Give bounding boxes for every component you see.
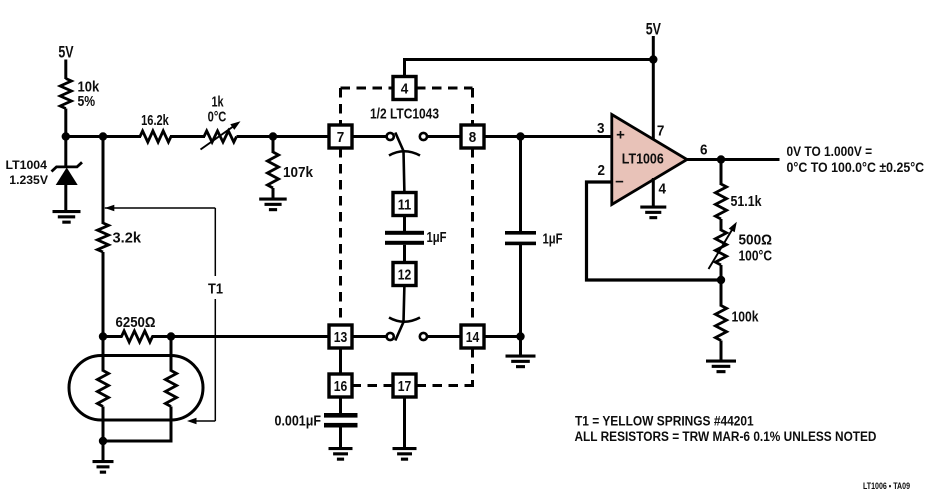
node B junction dot xyxy=(99,132,107,140)
svg-text:0V TO 1.000V =: 0V TO 1.000V = xyxy=(787,144,873,159)
LTC1043 dashed boundary top edge left xyxy=(341,87,394,90)
resistor R1 10k 5% xyxy=(60,79,71,109)
LTC1043 dashed boundary right edge mid xyxy=(471,148,474,325)
wire C2 to node H xyxy=(519,244,522,337)
pin box 16 xyxy=(329,374,352,397)
svg-text:ALL RESISTORS = TRW MAR-6 0.1%: ALL RESISTORS = TRW MAR-6 0.1% UNLESS NO… xyxy=(575,429,877,444)
svg-text:51.1k: 51.1k xyxy=(731,193,763,210)
node C junction dot xyxy=(269,132,277,140)
wire R7 to R8 xyxy=(720,219,723,231)
wire node A to node B xyxy=(66,135,105,138)
ground under thermistor xyxy=(93,460,114,474)
pin box 17 xyxy=(393,374,416,397)
wire C3 to ground xyxy=(339,428,342,449)
wire D1 anode to ground xyxy=(64,184,67,211)
wire 5V stub to R1 xyxy=(64,60,67,80)
svg-text:7: 7 xyxy=(657,123,665,140)
wire op-amp output xyxy=(686,158,780,161)
wire 5V stub right xyxy=(652,36,655,60)
switch S1 right contact xyxy=(420,133,427,140)
wire box 14 to node H xyxy=(484,335,522,338)
potentiometer R8 500ohm 100degC xyxy=(715,230,726,265)
switch S2 wiper arc xyxy=(389,318,420,322)
svg-text:1μF: 1μF xyxy=(543,231,563,248)
wire R4 to ground xyxy=(272,188,275,199)
wire node D to R6 xyxy=(103,335,123,338)
svg-text:16: 16 xyxy=(334,378,348,395)
wire box 16 to C3 xyxy=(339,397,342,414)
wire T1 left element to node F xyxy=(102,407,105,443)
wire switch contact to box 8 xyxy=(427,135,461,138)
wire R8 to node K xyxy=(720,265,723,307)
wire T1 right element down xyxy=(170,407,173,442)
svg-text:12: 12 xyxy=(398,267,412,284)
pin box 7 xyxy=(329,125,352,148)
svg-text:LT1006: LT1006 xyxy=(622,151,664,168)
wire node C to R4 xyxy=(272,137,275,154)
svg-text:1.235V: 1.235V xyxy=(9,173,48,187)
wire R1 to node A xyxy=(64,109,67,168)
T1 callout arrow to 3.2k wire xyxy=(105,205,115,211)
T1 callout vertical upper xyxy=(214,208,216,276)
ground under R4 xyxy=(259,198,287,212)
LTC1043 dashed boundary right edge upper xyxy=(471,88,474,125)
wire node I to C2 xyxy=(519,137,522,233)
svg-text:+: + xyxy=(616,127,625,144)
pin box 14 xyxy=(461,325,484,348)
svg-text:0.001μF: 0.001μF xyxy=(275,413,322,430)
wire R2 to R3 xyxy=(170,135,205,138)
svg-text:500Ω: 500Ω xyxy=(739,232,773,249)
wire node D into oval xyxy=(102,337,105,372)
wire node E to pin box 13 xyxy=(171,335,330,338)
resistor R5 3.2k xyxy=(97,223,108,252)
svg-text:100k: 100k xyxy=(732,309,760,326)
wire feedback net xyxy=(587,182,723,280)
svg-text:0°C: 0°C xyxy=(208,109,227,126)
potentiometer R3 1k 0degC xyxy=(204,131,237,142)
LTC1043 dashed boundary right edge lower xyxy=(471,348,474,387)
wire node J to R7 xyxy=(720,160,723,186)
ground under R9 xyxy=(706,360,736,374)
svg-text:T1: T1 xyxy=(208,281,223,298)
node J junction dot xyxy=(717,155,725,163)
wire R5 to node D xyxy=(102,252,105,338)
svg-text:11: 11 xyxy=(398,197,412,214)
switch S2 left contact xyxy=(387,333,394,340)
svg-text:LT1006 • TA09: LT1006 • TA09 xyxy=(863,481,910,491)
wire node E into oval xyxy=(170,337,173,372)
svg-text:2: 2 xyxy=(598,162,606,179)
wire pin 4 box to top rail xyxy=(403,60,406,77)
node A junction dot xyxy=(62,132,70,140)
svg-text:3.2k: 3.2k xyxy=(113,230,142,247)
svg-text:5V: 5V xyxy=(58,44,73,62)
wire bottom link xyxy=(102,440,173,443)
wire top rail xyxy=(403,58,653,61)
wire node B to R5 xyxy=(102,137,105,225)
resistor R6 6250ohm xyxy=(122,331,153,342)
svg-text:7: 7 xyxy=(337,129,345,146)
switch S1 arm xyxy=(395,133,404,193)
svg-text:8: 8 xyxy=(469,129,477,146)
svg-text:4: 4 xyxy=(659,181,667,198)
op-amp U1 LT1006 xyxy=(612,115,687,205)
svg-text:5V: 5V xyxy=(646,21,661,39)
ground under D1 xyxy=(53,210,81,224)
T1 callout arrow to oval xyxy=(190,420,215,422)
ground under op-amp xyxy=(640,206,666,220)
wire node B to R2 xyxy=(103,135,141,138)
node F junction dot xyxy=(99,437,107,445)
resistor R2 16.2k xyxy=(140,131,171,142)
capacitor C3 0.001uF xyxy=(324,413,358,418)
capacitor C2 1uF xyxy=(505,231,536,235)
capacitor C1 1uF xyxy=(385,231,424,235)
svg-text:T1 = YELLOW SPRINGS #44201: T1 = YELLOW SPRINGS #44201 xyxy=(575,414,754,429)
svg-text:107k: 107k xyxy=(283,164,314,181)
pin box 11 xyxy=(393,193,416,216)
zener diode D1 LT1004-1.235V xyxy=(52,162,83,171)
ground under box 17 xyxy=(393,447,417,461)
pin box 12 xyxy=(393,263,416,286)
wire box 17 to ground xyxy=(403,397,406,448)
thermistor T1 enclosure oval xyxy=(69,356,203,421)
wire node F to ground xyxy=(102,441,105,461)
svg-text:3: 3 xyxy=(597,120,605,137)
svg-text:17: 17 xyxy=(398,378,412,395)
svg-text:LT1004: LT1004 xyxy=(6,158,48,172)
node D junction dot xyxy=(99,332,107,340)
svg-text:14: 14 xyxy=(466,329,480,346)
wire R9 to ground xyxy=(720,341,723,361)
switch S1 wiper arc xyxy=(389,151,420,155)
svg-text:1/2 LTC1043: 1/2 LTC1043 xyxy=(370,106,439,123)
svg-text:1μF: 1μF xyxy=(427,229,447,246)
wire R3 to node C xyxy=(237,135,275,138)
LTC1043 dashed boundary left edge upper xyxy=(339,88,342,125)
LTC1043 dashed boundary left edge lower xyxy=(339,148,342,325)
node E junction dot xyxy=(167,332,175,340)
svg-text:0°C TO 100.0°C ±0.25°C: 0°C TO 100.0°C ±0.25°C xyxy=(787,160,925,175)
LTC1043 dashed boundary bottom edge left xyxy=(352,384,393,387)
wire box 11 to C1 xyxy=(403,216,406,233)
thermistor T1 right element xyxy=(165,371,176,407)
wire box 7 to switch contact xyxy=(352,135,386,138)
wire box 13 to box 16 xyxy=(339,348,342,374)
resistor R7 51.1k xyxy=(715,184,726,219)
node H junction dot xyxy=(516,332,524,340)
switch S2 arm xyxy=(395,286,404,341)
svg-text:4: 4 xyxy=(401,81,409,98)
svg-text:5%: 5% xyxy=(78,93,96,110)
LTC1043 dashed boundary top edge right xyxy=(416,87,473,90)
svg-text:100°C: 100°C xyxy=(739,248,773,265)
LTC1043 dashed boundary bottom edge right xyxy=(416,384,474,387)
wire R6 to node E xyxy=(152,335,173,338)
node G junction dot xyxy=(649,55,657,63)
wire node C to pin box 7 xyxy=(273,135,330,138)
T1 callout vertical lower xyxy=(214,299,216,421)
wire C1 to box 12 xyxy=(403,245,406,263)
svg-text:6250Ω: 6250Ω xyxy=(116,314,156,331)
resistor R9 100k xyxy=(715,306,726,341)
pin box 13 xyxy=(329,325,352,348)
pin box 8 xyxy=(461,125,484,148)
wire box 13 to switch contact xyxy=(352,335,386,338)
svg-text:−: − xyxy=(615,174,624,191)
ground under node H xyxy=(506,355,536,369)
wire node H to ground xyxy=(519,337,522,356)
wire switch contact to box 14 xyxy=(427,335,461,338)
node I junction dot xyxy=(516,132,524,140)
svg-text:6: 6 xyxy=(700,142,708,159)
wire op-amp pin 4 to ground xyxy=(652,178,655,207)
pin box 4 xyxy=(393,77,416,100)
svg-text:13: 13 xyxy=(334,329,348,346)
resistor R4 107k xyxy=(267,152,278,188)
switch S2 right contact xyxy=(420,333,427,340)
ground under C3 xyxy=(329,447,353,461)
switch S1 left contact xyxy=(387,133,394,140)
thermistor T1 left element xyxy=(97,371,108,407)
node K junction dot xyxy=(717,276,725,284)
svg-text:16.2k: 16.2k xyxy=(141,112,169,129)
wire rail down to op-amp pin 7 xyxy=(652,60,655,142)
wire box 8 to op-amp rail xyxy=(484,135,612,138)
